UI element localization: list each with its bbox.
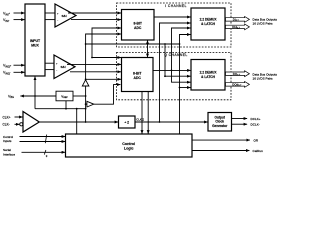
- wire vref to riser: [73, 95, 86, 97]
- wire CLK-: [15, 123, 20, 125]
- label I CHANNEL: [165, 4, 187, 8]
- svg-text:ADC: ADC: [134, 76, 142, 80]
- wire control logic feed down: [76, 109, 78, 134]
- svg-text:1:2 DEMUX: 1:2 DEMUX: [199, 70, 217, 74]
- buffer triangle right small: [87, 101, 94, 107]
- svg-text:MUX: MUX: [31, 43, 39, 47]
- output clock generator box: [208, 113, 232, 132]
- svg-text:Generator: Generator: [212, 124, 228, 128]
- svg-text:DCLK-: DCLK-: [251, 123, 260, 127]
- wire div2 to output clock generator: [135, 121, 208, 123]
- svg-text:1:2 DEMUX: 1:2 DEMUX: [199, 17, 217, 21]
- wire VinI+: [14, 12, 25, 14]
- junction riser on vref line: [85, 95, 87, 97]
- label Q CHANNEL: [164, 53, 187, 57]
- bus arrow DI: [226, 17, 250, 23]
- wire clock down into Q ADC top: [147, 44, 149, 57]
- svg-text:Inputs: Inputs: [3, 139, 12, 143]
- svg-text:16 LVDS Pairs: 16 LVDS Pairs: [253, 76, 274, 80]
- wire VinQ+: [14, 64, 25, 66]
- svg-text:8-BIT: 8-BIT: [133, 21, 142, 25]
- wire VinI-: [14, 19, 25, 21]
- junction vref drop on select line: [65, 108, 67, 110]
- wire Vbg output: [20, 95, 56, 97]
- junction riser on select line: [85, 108, 87, 110]
- svg-text:& LATCH: & LATCH: [201, 75, 215, 79]
- wire I ADC to I DEMUX data: [154, 16, 191, 18]
- wire OR output: [192, 139, 250, 141]
- wire DCLK+: [232, 118, 248, 120]
- wire VinQ-: [14, 71, 25, 73]
- junction mux select on Vbg line: [34, 95, 36, 97]
- buffer triangle up: [82, 80, 89, 86]
- wire branch to Q ADC input 4: [86, 78, 121, 80]
- junction x171.5 on Q data line: [171, 70, 173, 72]
- junction riser x92 to Q ADC input 1: [91, 57, 93, 59]
- wire branch Q DEMUX input 4: [180, 87, 191, 89]
- junction x179.5 on clk2 line: [179, 43, 181, 45]
- junction riser to Q ADC input 4: [85, 78, 87, 80]
- wire S/H Q outputs to Q ADC: [67, 64, 121, 71]
- junction riser on clock line: [85, 121, 87, 123]
- input mux box: [25, 4, 45, 76]
- svg-text:÷ 2: ÷ 2: [124, 121, 129, 125]
- wire mux to S/H Q: [45, 63, 54, 69]
- bus slash serial: [44, 150, 46, 155]
- svg-text:-: -: [57, 18, 58, 22]
- svg-text:ADC: ADC: [134, 26, 142, 30]
- wire clock up into I ADC bottom: [147, 40, 149, 44]
- svg-text:OR: OR: [254, 138, 259, 142]
- bus slash control: [45, 135, 46, 144]
- wire mux to S/H I: [45, 13, 55, 20]
- svg-text:S/H: S/H: [61, 65, 67, 69]
- wire CLK+: [15, 116, 23, 118]
- svg-text:Q CHANNEL: Q CHANNEL: [164, 53, 187, 57]
- reference box Vref: [56, 91, 73, 101]
- op-amp S/H I: [55, 4, 76, 27]
- wire control input 2: [20, 141, 66, 143]
- wire control input 1: [20, 136, 66, 138]
- bus arrow DQ: [226, 71, 250, 77]
- wire vref box bottom drop: [65, 101, 67, 109]
- svg-text:S/H: S/H: [62, 14, 68, 18]
- svg-text:-: -: [56, 68, 57, 72]
- svg-text:Logic: Logic: [124, 146, 134, 150]
- svg-text:Interface: Interface: [3, 152, 15, 156]
- svg-text:& LATCH: & LATCH: [201, 22, 215, 26]
- control logic box: [66, 134, 193, 157]
- divide by 2 box: [119, 116, 136, 128]
- inversion bubble: [20, 123, 23, 126]
- wire mux select net: [34, 77, 36, 109]
- demux Q box: [191, 60, 225, 91]
- op-amp S/H Q: [54, 55, 75, 79]
- wire clock buffer small to clock line: [94, 85, 121, 105]
- svg-text:CalRun: CalRun: [253, 149, 264, 153]
- junction x165 to Q DEMUX input 2: [164, 75, 166, 77]
- wire branch Q DEMUX input 2 from x165: [165, 75, 191, 77]
- junction x159.5 on clock line: [159, 121, 161, 123]
- svg-text:CLK/2: CLK/2: [136, 117, 144, 121]
- wire vertical x159.5 to I DEMUX input 2 and clock line: [160, 23, 191, 122]
- svg-text:Control: Control: [122, 142, 135, 146]
- wire CalRun output: [192, 150, 249, 152]
- wires Q ADC bottom to control logic: [142, 92, 148, 134]
- adc I box: [122, 10, 155, 41]
- svg-text:CLK-: CLK-: [3, 123, 10, 127]
- svg-text:DCLK+: DCLK+: [251, 117, 261, 121]
- wire Q ADC to Q DEMUX data: [153, 69, 191, 71]
- wire vertical x179.5 to I DEMUX input 4 and control logic: [180, 35, 191, 135]
- junction riser on clk2 line: [85, 43, 87, 45]
- svg-text:16 LVDS Pairs: 16 LVDS Pairs: [253, 22, 274, 26]
- junction x165 on clk2 line: [164, 43, 166, 45]
- bus arrow DQd: [226, 82, 250, 88]
- wire riser branch to clock buffer: [86, 103, 87, 105]
- wire clk2 distribution line y44: [86, 43, 180, 45]
- demux I box: [191, 8, 225, 40]
- wire riser x85.6 reference to I ADC input 4: [86, 34, 121, 80]
- junction x179.5 to Q DEMUX input 4: [179, 87, 181, 89]
- wire serial interface: [22, 151, 66, 153]
- junction control feed on select line: [76, 108, 78, 110]
- bus arrow DId: [226, 24, 250, 30]
- wire branch to Q ADC input 1: [92, 57, 121, 59]
- wire vertical x171.5 to I DEMUX input 3 and x165 stub: [165, 28, 191, 76]
- junction riser to small buffer: [85, 103, 87, 105]
- dashed box Q CHANNEL: [117, 53, 232, 100]
- dashed box I CHANNEL: [117, 3, 232, 47]
- svg-text:8-BIT: 8-BIT: [133, 71, 142, 75]
- svg-text:CLK+: CLK+: [3, 115, 11, 119]
- wire clock line to div2: [39, 121, 118, 123]
- clock buffer triangle: [23, 112, 39, 133]
- junction ADC clock taps on clk2 line: [147, 43, 149, 45]
- wire riser x92 to I ADC input 3: [92, 28, 121, 58]
- wire DCLK-: [232, 123, 248, 125]
- wire Q DEMUX input 3 from x171.5: [172, 70, 191, 82]
- adc Q box: [122, 58, 154, 92]
- svg-text:I CHANNEL: I CHANNEL: [165, 4, 187, 8]
- wire below buffer to vref line: [85, 86, 87, 122]
- wire S/H I outputs to I ADC: [68, 13, 121, 20]
